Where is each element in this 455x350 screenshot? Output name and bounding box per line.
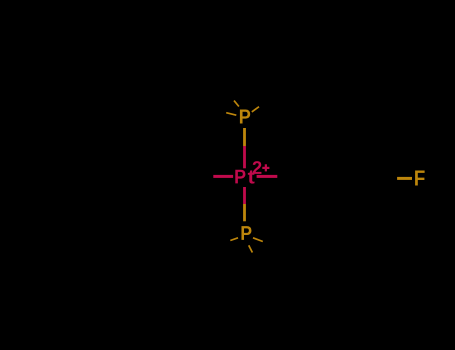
wire: Pt-P(top) bond, gold upper half: [243, 128, 246, 146]
wire: bottom P methyl bond (right): [253, 238, 263, 242]
wire: top P methyl bond (upper-left): [234, 101, 239, 107]
atom P (bottom phosphine): [241, 226, 251, 240]
wire: Pt-CH3 bond (left, crimson half): [213, 175, 233, 178]
wire: bottom P methyl bond (down): [249, 245, 253, 252]
wire: aryl-F bond (gold half): [397, 177, 412, 180]
charge 2+ : plus sign (vertical bar): [265, 164, 267, 171]
atom F (fluorine): [415, 171, 425, 186]
wire: top P methyl bond (upper-right): [252, 107, 259, 112]
wire: Pt-P(bottom) bond, crimson upper half: [243, 187, 246, 204]
charge 2+ : plus sign (horizontal bar): [262, 167, 269, 169]
wire: Pt-P(bottom) bond, gold lower half: [243, 204, 246, 221]
charge 2+ : digit 2: [253, 161, 262, 174]
wire: Pt-aryl bond (right, crimson half): [257, 175, 278, 178]
atom Pt: letter t: [248, 170, 255, 183]
atom P (top phosphine): [240, 110, 250, 124]
wire: top P methyl bond (left): [226, 113, 236, 116]
wire: bottom P methyl bond (left): [230, 238, 238, 241]
atom Pt: letter P: [235, 170, 245, 184]
wire: Pt-P(top) bond, crimson lower half: [243, 146, 246, 168]
